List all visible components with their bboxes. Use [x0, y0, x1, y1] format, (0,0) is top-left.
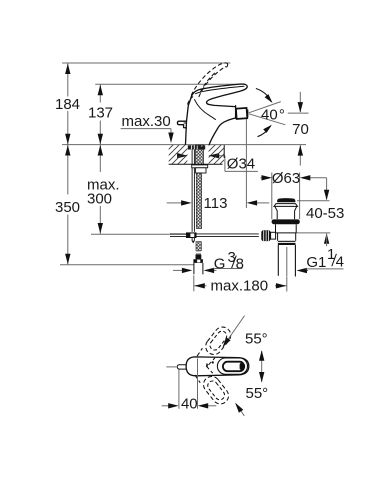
faucet body [186, 84, 248, 144]
label max.30 leader [121, 128, 171, 130]
svg-text:350: 350 [55, 199, 80, 216]
waste plug cap (dark) [277, 198, 295, 202]
label G3/8 [173, 269, 182, 271]
dimension Ø34 [178, 155, 187, 157]
dashed raised lever tip [225, 63, 228, 67]
svg-text:70: 70 [292, 121, 309, 138]
top view: dashed handle rotated down 55deg [194, 365, 232, 407]
rod stub below junction [191, 238, 193, 241]
dimension 40-53 [326, 178, 328, 200]
lever inner line [195, 86, 244, 94]
mousseur end cap [246, 110, 249, 117]
svg-text:max.30: max.30 [122, 113, 171, 130]
top view: small marks [206, 363, 208, 367]
wire: max300 bottom reference line [91, 233, 186, 235]
faucet threaded shank through counter (cross-hatched) [196, 145, 204, 165]
mousseur block [236, 108, 247, 119]
dashed raised lever bottom edge [199, 67, 226, 98]
mounting nut [196, 168, 206, 173]
countertop hatched section right block [209, 145, 225, 164]
svg-text:4: 4 [336, 253, 344, 270]
svg-text:113: 113 [204, 195, 228, 212]
wire: 184 top reference line [62, 62, 230, 64]
top view: dashed handle rotated up 55deg [196, 324, 234, 366]
countertop hatched section left block [169, 145, 188, 164]
wire: mounting surface reference line [62, 144, 306, 146]
dimension Ø63 [271, 173, 273, 220]
label G1 1/4 [297, 268, 308, 273]
waste plug lip [274, 204, 298, 207]
top view: pop-up knob tab [177, 365, 186, 369]
waste upper body [276, 224, 297, 233]
svg-text:300: 300 [87, 191, 112, 208]
svg-text:137: 137 [88, 105, 113, 122]
waste neck [275, 206, 297, 219]
55 deg double arrow [261, 351, 263, 382]
spout end face [235, 106, 237, 119]
wire: spout tip extension line [245, 119, 247, 209]
hose connection tube [193, 263, 195, 274]
svg-text:Ø63: Ø63 [272, 170, 300, 187]
dimension 70 [299, 92, 301, 112]
top view: grip outer ring [217, 358, 247, 374]
faucet spout underside curve [209, 118, 235, 144]
waste body joint line [276, 232, 297, 234]
faucet pop-up rod (vertical) [191, 146, 193, 232]
top view: grip inner (thick) [223, 362, 244, 372]
svg-text:8: 8 [236, 256, 244, 273]
faucet base / mounting hole dark band [188, 145, 205, 149]
pop-up knob on faucet [177, 121, 186, 128]
linkage junction block [186, 232, 197, 238]
svg-text:G: G [214, 256, 226, 273]
svg-text:40 °: 40 ° [261, 107, 285, 124]
40 deg arc lower [258, 126, 271, 137]
pop-up linkage rod horizontal [170, 233, 259, 235]
dimension max.300 [99, 145, 101, 172]
top view: body capsule [186, 357, 249, 376]
waste flange (dark) [272, 219, 300, 224]
waste coupling ring (dark) [278, 241, 296, 245]
svg-text:Ø34: Ø34 [227, 155, 255, 172]
dimension 184 [67, 63, 69, 97]
svg-text:55°: 55° [245, 331, 268, 348]
hose nut G3/8 [193, 259, 203, 263]
dimension max.180 [193, 275, 195, 291]
wire: 137 top reference line [95, 83, 245, 85]
svg-text:40-53: 40-53 [306, 205, 344, 222]
svg-text:40: 40 [181, 395, 198, 412]
55 deg lower leader [236, 404, 244, 416]
top view: centerline stub left [166, 366, 177, 368]
40 deg spray angle lines [249, 102, 281, 113]
svg-text:3: 3 [228, 249, 236, 266]
dimension 40 (top view) [178, 370, 180, 409]
40 deg arc upper [256, 89, 271, 102]
55 deg upper leader [224, 316, 245, 346]
waste lever knob (knurled) [261, 230, 270, 241]
waste centerline [286, 247, 288, 276]
countertop bottom edge [169, 163, 223, 165]
svg-text:G1: G1 [306, 254, 326, 271]
dimension 113 [167, 202, 182, 204]
wire: 350 bottom reference line [60, 264, 194, 266]
braided supply hose (cross-hatched) [196, 173, 201, 229]
svg-text:max.180: max.180 [211, 277, 269, 294]
washer under counter [192, 165, 208, 168]
dimension 137 [99, 84, 101, 102]
svg-text:184: 184 [55, 96, 80, 113]
waste tailpipe [277, 245, 279, 276]
hose end fitting [196, 251, 201, 255]
lower braided hose section [196, 242, 201, 251]
waste lever stem [271, 232, 276, 239]
faucet body shoulder line [194, 99, 216, 120]
svg-text:55°: 55° [246, 385, 269, 402]
dashed lever inner strokes [200, 72, 216, 93]
dashed raised lever top edge [191, 63, 225, 96]
dimension 350 [67, 145, 69, 195]
